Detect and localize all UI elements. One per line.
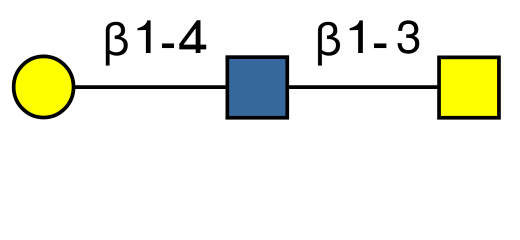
node GalNAc (yellow square)	[439, 57, 499, 117]
wire Gal to GlcNAc	[43, 85, 258, 89]
linkage label beta1-3: glyph beta	[318, 22, 340, 66]
linkage label beta1-3: glyph 1	[350, 20, 363, 53]
linkage label beta1-3: glyph 3	[398, 20, 420, 53]
wire GlcNAc to GalNAc	[258, 85, 469, 89]
linkage label beta1-3: glyph hyphen	[374, 43, 386, 48]
linkage label beta1-4: glyph hyphen	[162, 43, 174, 48]
linkage label beta1-4: glyph 4	[179, 20, 206, 53]
linkage label beta1-4: glyph 1	[137, 20, 150, 53]
linkage label beta1-4: glyph beta	[106, 22, 128, 66]
node Gal (yellow circle)	[14, 56, 74, 117]
node GlcNAc (blue square)	[227, 57, 287, 118]
